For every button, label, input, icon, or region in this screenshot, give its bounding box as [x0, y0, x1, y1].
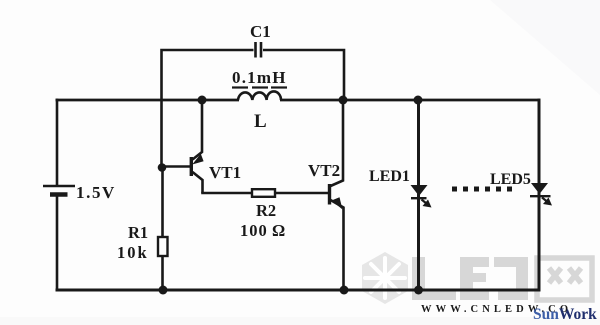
node: top rail / C1 / VT2 collector: [339, 96, 348, 105]
svg-text:C1: C1: [250, 22, 271, 41]
inductor L coil: [238, 91, 281, 100]
svg-text:0.1mH: 0.1mH: [232, 68, 287, 87]
transistor VT2 (NPN): [330, 99, 344, 290]
svg-text:VT1: VT1: [209, 163, 241, 182]
wire: top rail left segment: [56, 99, 240, 102]
wire: right branch vertical (LED5): [538, 99, 541, 292]
node: top rail / LED1 branch: [414, 96, 423, 105]
node: bottom rail / LED1: [414, 286, 423, 295]
watermark LED glyph D: [494, 257, 528, 300]
battery GB 1.5V plates: [43, 186, 75, 195]
wire: base node down to R1: [161, 168, 164, 239]
dotted line LED2..LED4 omitted: [452, 187, 512, 192]
watermark LED glyph L: [412, 257, 456, 300]
svg-text:LED1: LED1: [369, 168, 410, 185]
svg-text:LED5: LED5: [490, 171, 531, 188]
label 0.1mH underline: [232, 86, 287, 88]
watermark glyph wang (net): [537, 258, 592, 300]
capacitor C1 plates: [256, 42, 262, 58]
wire: C1 right lead: [263, 50, 344, 100]
node: bottom rail / VT2 emitter: [340, 286, 349, 295]
wire: R2 to VT2 base: [275, 192, 329, 195]
svg-text:VT2: VT2: [308, 161, 340, 180]
node: top rail / VT1 emitter: [198, 96, 207, 105]
svg-text:SunWork: SunWork: [533, 306, 597, 323]
svg-text:10k: 10k: [117, 243, 149, 262]
node: base of VT1 / C1 / R1 junction: [158, 163, 167, 172]
svg-text:R2: R2: [256, 201, 276, 220]
transistor VT1 (PNP): [191, 99, 203, 193]
watermark LED glyph E: [460, 257, 489, 300]
LED D1 symbol: [411, 185, 432, 208]
wire: LED1 branch vertical: [417, 100, 420, 290]
wire: bottom rail: [56, 289, 541, 292]
wire: top rail right segment: [280, 99, 540, 102]
watermark logo hexagon snowflake: [362, 252, 408, 304]
LED D5 symbol: [530, 183, 552, 206]
svg-text:100 Ω: 100 Ω: [240, 221, 286, 240]
svg-text:1.5V: 1.5V: [76, 183, 116, 202]
wire: left branch vertical (battery) upper: [56, 99, 59, 186]
wire: left branch vertical lower: [56, 195, 59, 292]
node: bottom rail / R1: [159, 286, 168, 295]
wire: C1 left lead: [162, 50, 254, 168]
wire: R1 to bottom rail: [161, 256, 164, 290]
wire: VT1 collector to R2: [201, 192, 252, 195]
resistor R1: [158, 237, 168, 256]
resistor R2: [252, 189, 275, 197]
svg-text:R1: R1: [128, 223, 148, 242]
svg-text:L: L: [254, 111, 267, 132]
wire: VT1 base lead: [162, 165, 190, 168]
